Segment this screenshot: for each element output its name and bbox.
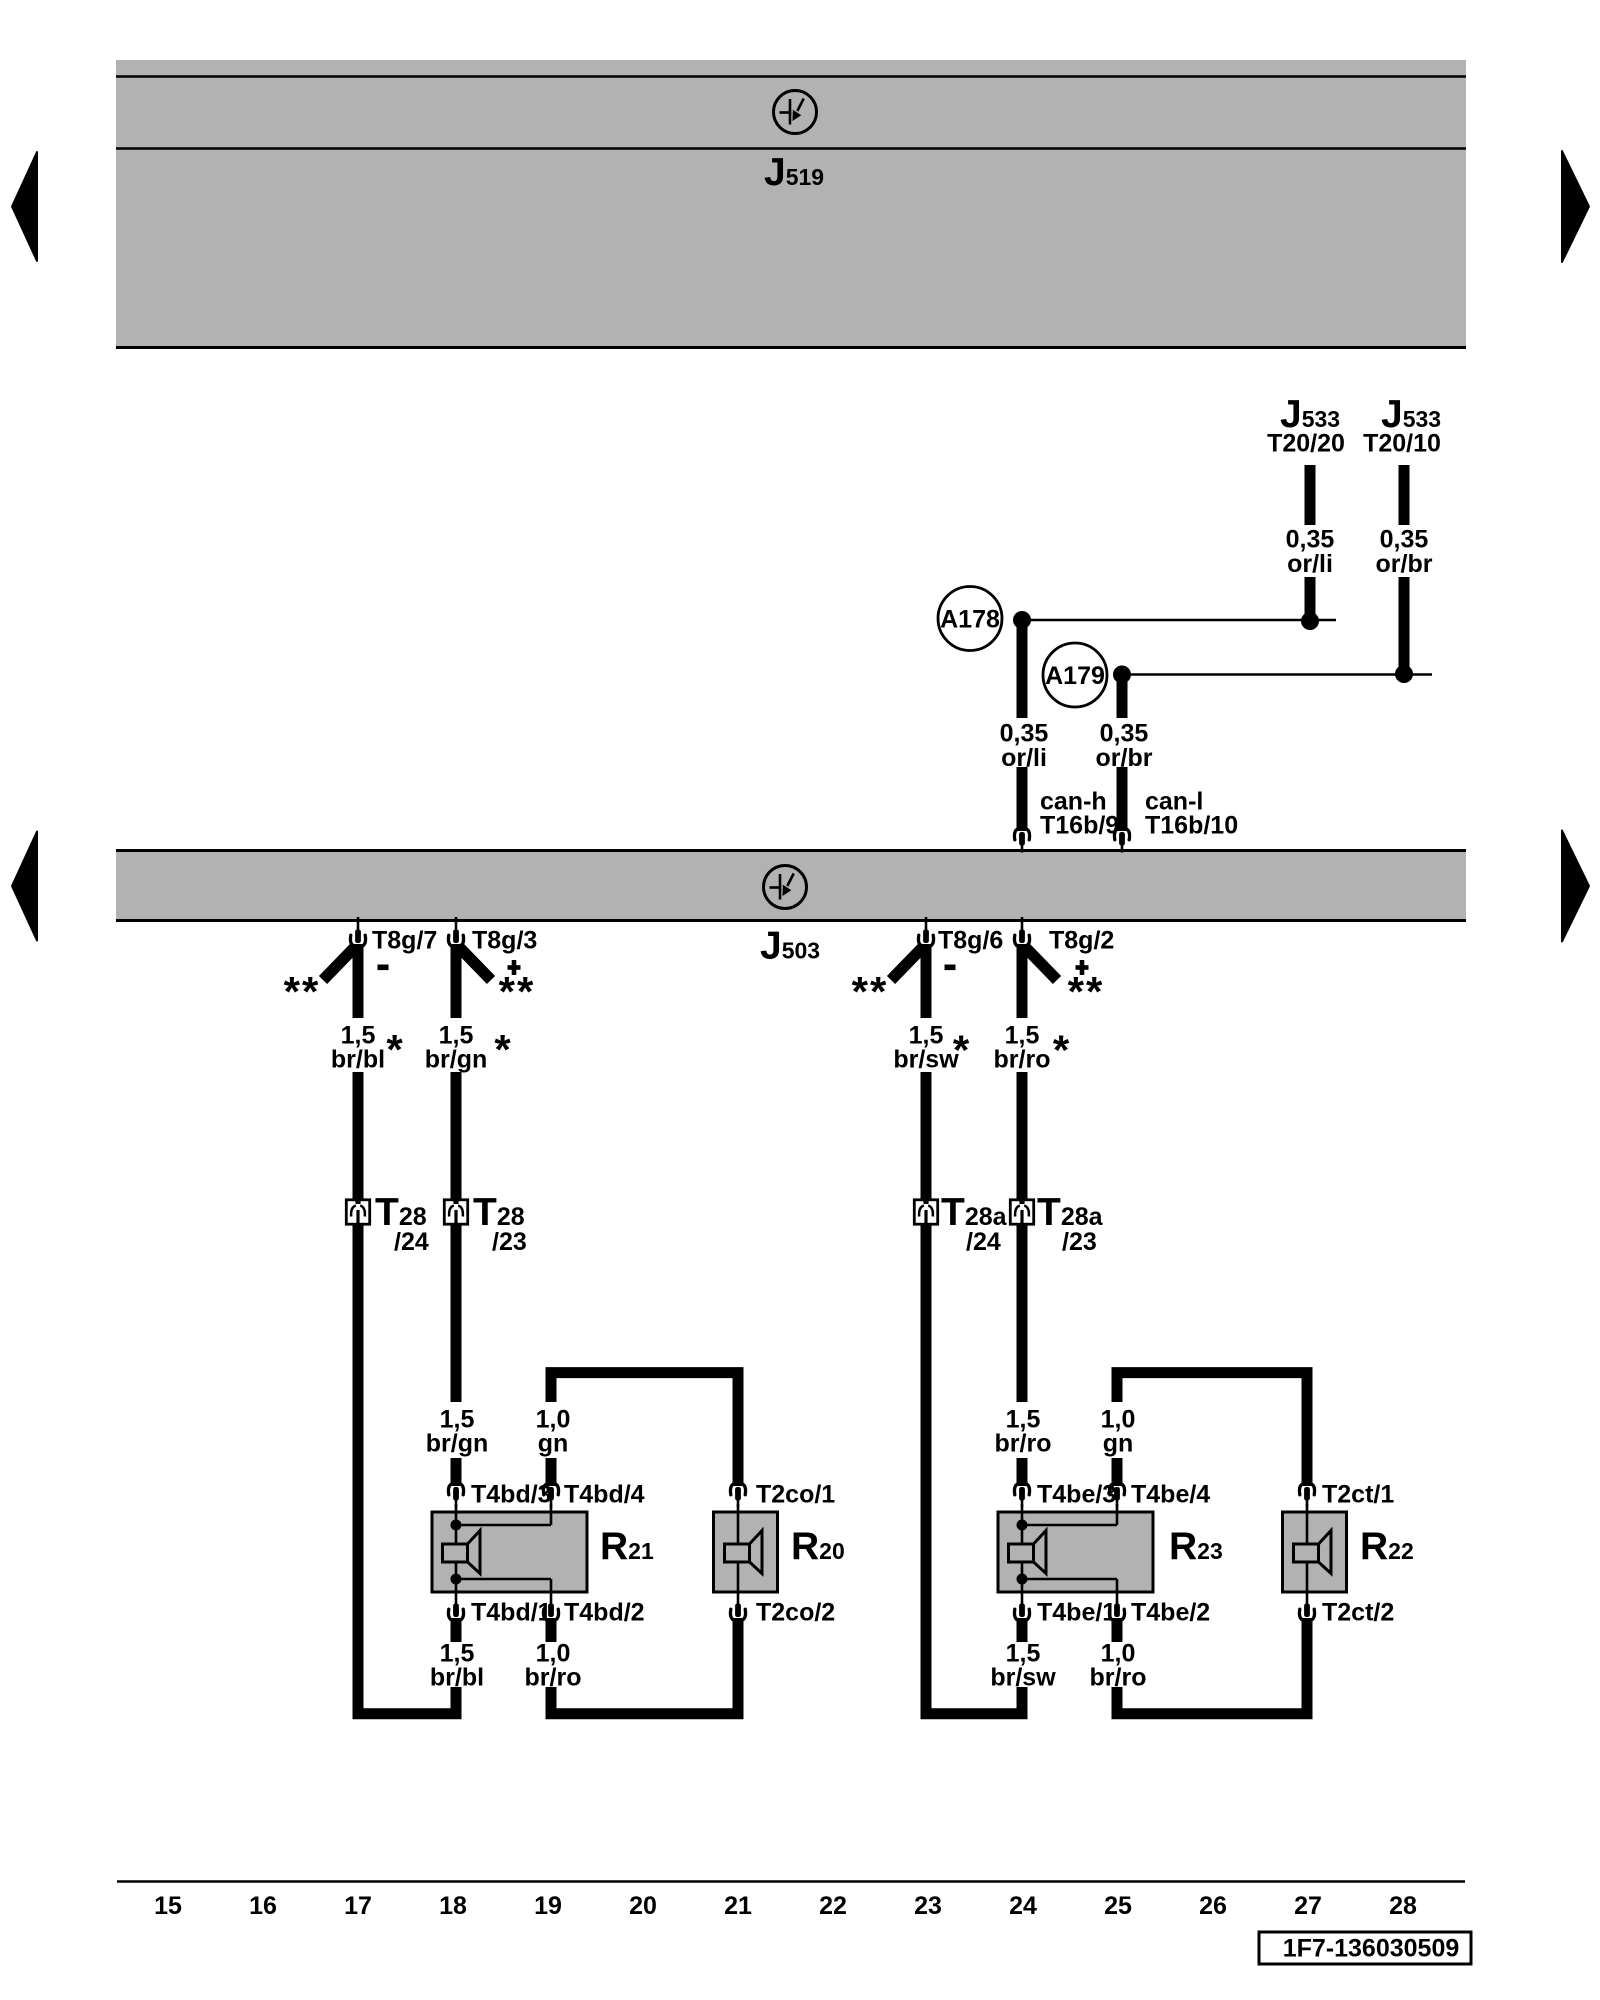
svg-text:24: 24 bbox=[1009, 1892, 1037, 1920]
svg-text:gn: gn bbox=[1103, 1430, 1134, 1458]
svg-text:T4be/1: T4be/1 bbox=[1037, 1599, 1116, 1627]
svg-text:br/gn: br/gn bbox=[425, 1046, 488, 1074]
svg-text:br/ro: br/ro bbox=[994, 1046, 1051, 1074]
svg-text:26: 26 bbox=[1199, 1892, 1227, 1920]
svg-text:T2ct/1: T2ct/1 bbox=[1322, 1481, 1394, 1509]
svg-text:T8g/6: T8g/6 bbox=[938, 927, 1003, 955]
svg-text:/23: /23 bbox=[492, 1228, 527, 1256]
svg-text:R22: R22 bbox=[1360, 1525, 1414, 1568]
svg-text:T16b/10: T16b/10 bbox=[1145, 812, 1238, 840]
svg-text:T4bd/4: T4bd/4 bbox=[564, 1481, 645, 1509]
svg-text:*: * bbox=[494, 1026, 511, 1073]
svg-text:28: 28 bbox=[1389, 1892, 1417, 1920]
svg-text:T2ct/2: T2ct/2 bbox=[1322, 1599, 1394, 1627]
svg-text:*: * bbox=[1053, 1027, 1070, 1074]
svg-text:27: 27 bbox=[1294, 1892, 1322, 1920]
svg-text:or/li: or/li bbox=[1287, 550, 1333, 578]
svg-text:J503: J503 bbox=[760, 925, 820, 968]
svg-text:16: 16 bbox=[249, 1892, 277, 1920]
svg-text:R20: R20 bbox=[791, 1525, 845, 1568]
svg-text:T20/20: T20/20 bbox=[1267, 430, 1345, 458]
svg-text:br/sw: br/sw bbox=[990, 1664, 1056, 1692]
svg-text:br/gn: br/gn bbox=[426, 1430, 489, 1458]
svg-text:T2co/2: T2co/2 bbox=[756, 1599, 835, 1627]
svg-text:**: ** bbox=[284, 968, 321, 1015]
svg-text:or/br: or/br bbox=[1376, 550, 1433, 578]
svg-text:br/sw: br/sw bbox=[893, 1046, 959, 1074]
svg-text:br/ro: br/ro bbox=[995, 1430, 1052, 1458]
svg-text:/23: /23 bbox=[1062, 1228, 1097, 1256]
svg-text:br/bl: br/bl bbox=[331, 1046, 385, 1074]
svg-text:20: 20 bbox=[629, 1892, 657, 1920]
svg-text:/24: /24 bbox=[394, 1228, 429, 1256]
svg-text:A178: A178 bbox=[940, 605, 1000, 633]
svg-text:15: 15 bbox=[154, 1892, 182, 1920]
svg-text:23: 23 bbox=[914, 1892, 942, 1920]
svg-text:/24: /24 bbox=[966, 1228, 1001, 1256]
svg-text:18: 18 bbox=[439, 1892, 467, 1920]
svg-text:*: * bbox=[953, 1027, 970, 1074]
svg-text:T16b/9: T16b/9 bbox=[1040, 812, 1119, 840]
svg-text:T4bd/1: T4bd/1 bbox=[471, 1599, 552, 1627]
svg-text:1F7-136030509: 1F7-136030509 bbox=[1283, 1935, 1460, 1963]
svg-text:T4bd/2: T4bd/2 bbox=[564, 1599, 645, 1627]
svg-text:T8g/7: T8g/7 bbox=[372, 927, 437, 955]
svg-text:T4be/2: T4be/2 bbox=[1131, 1599, 1210, 1627]
svg-text:T4bd/3: T4bd/3 bbox=[471, 1481, 552, 1509]
svg-text:A179: A179 bbox=[1045, 662, 1105, 690]
svg-text:T4be/4: T4be/4 bbox=[1131, 1481, 1210, 1509]
svg-text:**: ** bbox=[852, 968, 889, 1015]
svg-text:T8g/2: T8g/2 bbox=[1049, 927, 1114, 955]
svg-text:25: 25 bbox=[1104, 1892, 1132, 1920]
svg-text:19: 19 bbox=[534, 1892, 562, 1920]
svg-text:17: 17 bbox=[344, 1892, 372, 1920]
svg-text:T20/10: T20/10 bbox=[1363, 430, 1441, 458]
svg-text:21: 21 bbox=[724, 1892, 752, 1920]
svg-text:T2co/1: T2co/1 bbox=[756, 1481, 835, 1509]
svg-text:R21: R21 bbox=[600, 1525, 654, 1568]
svg-text:22: 22 bbox=[819, 1892, 847, 1920]
svg-text:*: * bbox=[386, 1026, 403, 1073]
svg-text:T4be/3: T4be/3 bbox=[1037, 1481, 1116, 1509]
svg-text:**: ** bbox=[1068, 968, 1105, 1015]
svg-text:gn: gn bbox=[538, 1430, 569, 1458]
svg-text:**: ** bbox=[499, 968, 536, 1015]
svg-text:T8g/3: T8g/3 bbox=[472, 927, 537, 955]
svg-text:R23: R23 bbox=[1169, 1525, 1223, 1568]
